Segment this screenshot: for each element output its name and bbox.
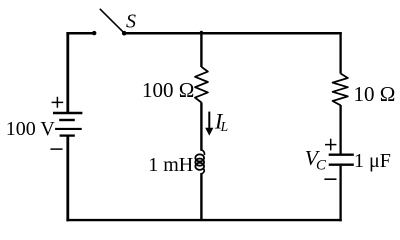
svg-text:100 Ω: 100 Ω	[142, 78, 194, 102]
svg-text:100 V: 100 V	[6, 118, 56, 140]
svg-text:L: L	[220, 119, 229, 134]
svg-text:1 mH: 1 mH	[148, 154, 193, 176]
svg-text:S: S	[126, 11, 136, 33]
svg-text:1 μF: 1 μF	[354, 150, 391, 172]
svg-text:C: C	[316, 158, 327, 174]
svg-text:10 Ω: 10 Ω	[354, 82, 396, 106]
